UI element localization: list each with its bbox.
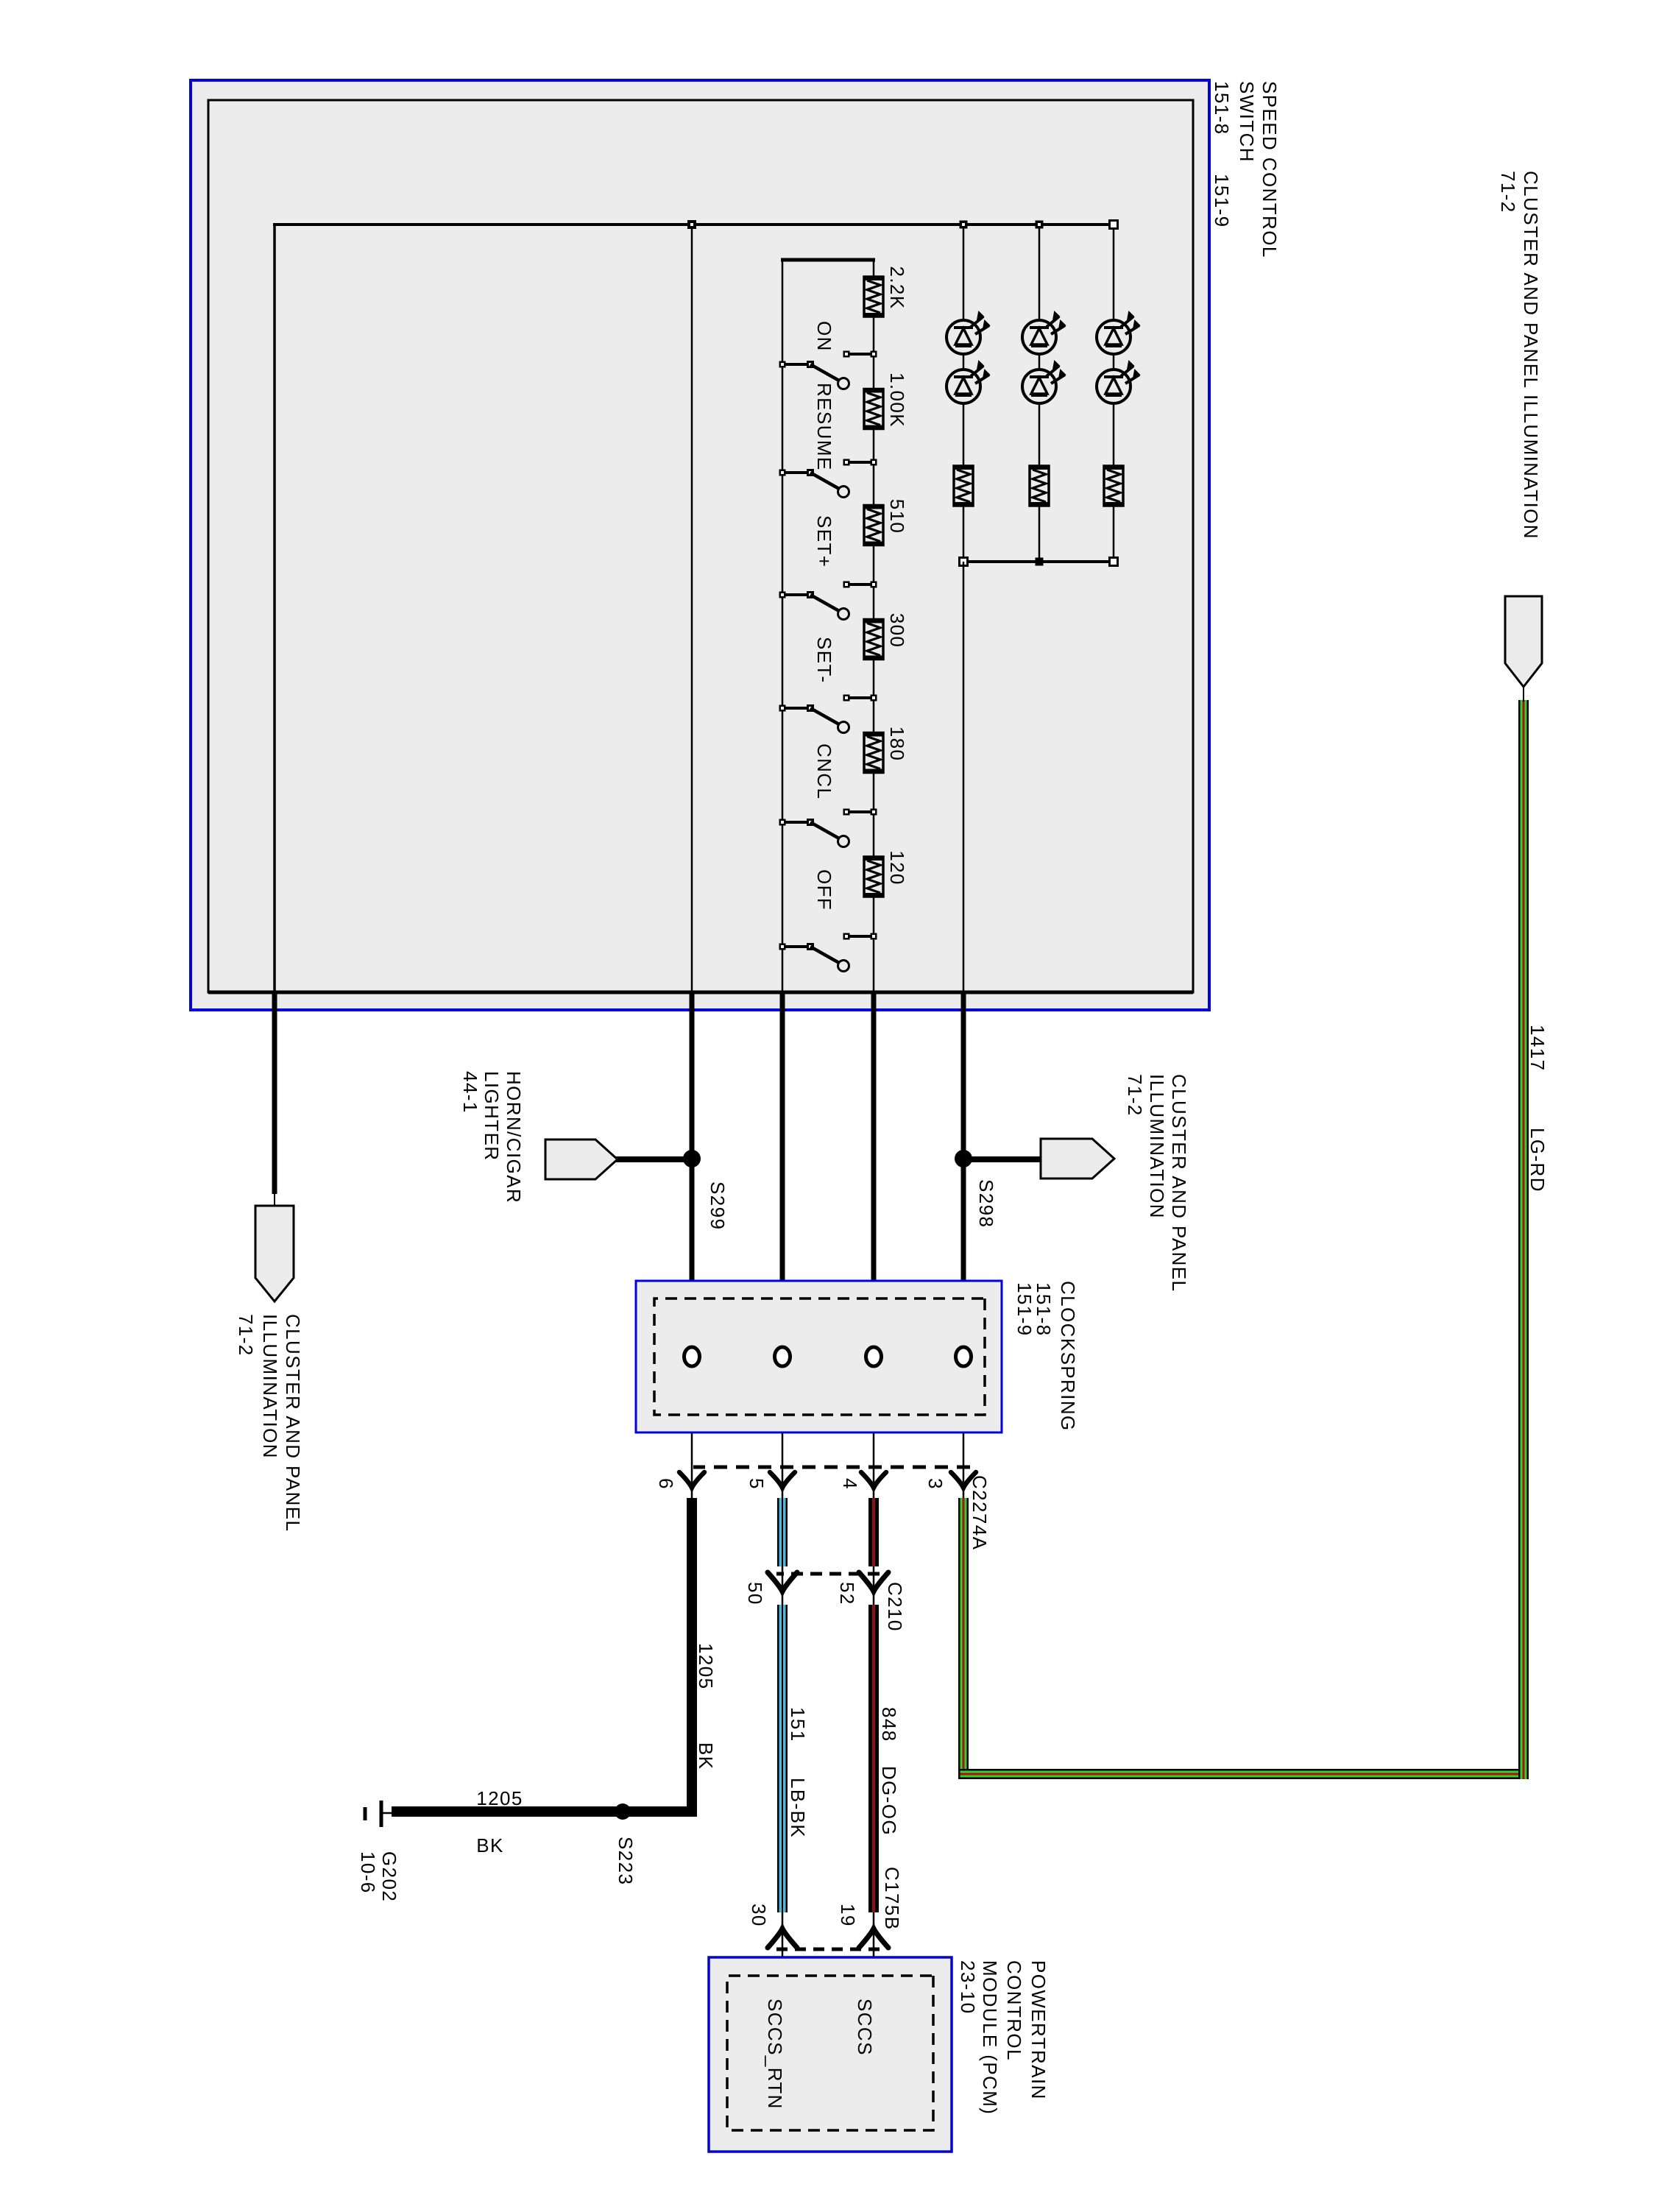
svg-text:151-9: 151-9	[1013, 1282, 1036, 1337]
svg-text:2.2K: 2.2K	[886, 266, 908, 309]
wire lamp branch 2	[1038, 225, 1041, 320]
label 1205 (ground run)	[476, 1787, 523, 1809]
svg-text:S298: S298	[975, 1179, 997, 1228]
svg-text:S223: S223	[615, 1837, 637, 1885]
svg-text:151-9: 151-9	[1211, 174, 1233, 228]
wire 1417 LG-RD top run	[1518, 700, 1529, 1779]
svg-text:10-6: 10-6	[357, 1851, 379, 1894]
svg-text:SCCS_RTN: SCCS_RTN	[764, 1999, 786, 2110]
svg-text:SET-: SET-	[813, 637, 835, 683]
svg-text:ILLUMINATION: ILLUMINATION	[1146, 1074, 1168, 1219]
powertrain control module box	[709, 1957, 952, 2152]
wire 1417 LG-RD vertical run	[958, 1769, 1529, 1779]
resistor 2.2K	[864, 277, 883, 317]
svg-text:30: 30	[748, 1904, 770, 1927]
splice S298	[955, 1150, 972, 1167]
svg-text:CLOCKSPRING: CLOCKSPRING	[1057, 1281, 1079, 1432]
svg-text:120: 120	[886, 850, 908, 886]
wire pin6 black	[691, 225, 693, 992]
svg-text:CLUSTER AND PANEL ILLUMINATION: CLUSTER AND PANEL ILLUMINATION	[1520, 171, 1542, 540]
wire lamp bottom bus	[962, 560, 1115, 563]
svg-text:G202: G202	[378, 1851, 400, 1902]
wire stub to horn/cigar connector	[616, 1156, 692, 1162]
svg-text:SCCS: SCCS	[854, 1999, 876, 2056]
ground G202	[381, 1812, 394, 1815]
resistor lamp 3	[954, 466, 973, 506]
svg-text:1.00K: 1.00K	[886, 372, 908, 428]
svg-text:POWERTRAIN: POWERTRAIN	[1027, 1960, 1050, 2100]
svg-text:1205: 1205	[476, 1787, 523, 1809]
svg-text:C2274A: C2274A	[969, 1475, 991, 1550]
svg-text:CLUSTER AND PANEL: CLUSTER AND PANEL	[282, 1314, 304, 1532]
lamp L6	[946, 361, 989, 403]
switch SET+	[779, 582, 877, 620]
svg-text:300: 300	[886, 613, 908, 649]
svg-text:52: 52	[836, 1582, 858, 1605]
wire pin4 chain out	[871, 992, 877, 1281]
svg-text:SWITCH: SWITCH	[1236, 81, 1258, 163]
wire 151 LB-BK bar segment 2	[777, 1605, 788, 1912]
svg-text:50: 50	[744, 1582, 766, 1605]
svg-text:LB-BK: LB-BK	[787, 1778, 809, 1838]
resistor lamp 1	[1104, 466, 1123, 506]
wire stub to cluster illumination connector (S298)	[963, 1156, 1041, 1162]
wire bridge bus-to-chain	[781, 258, 875, 262]
lamp L5	[946, 312, 989, 354]
svg-text:MODULE (PCM): MODULE (PCM)	[979, 1960, 1001, 2115]
wire pin3 lamp out	[963, 562, 965, 992]
speed control switch box	[191, 80, 1209, 1010]
wire 151 LB-BK bar segment 1	[777, 1498, 788, 1566]
svg-text:RESUME: RESUME	[813, 383, 835, 471]
resistor 180	[864, 733, 883, 773]
wire resistor chain	[873, 260, 875, 277]
switch RESUME	[779, 459, 877, 498]
resistor lamp 2	[1030, 466, 1049, 506]
svg-text:C210: C210	[884, 1582, 906, 1632]
connector pin arrow C210 pin 52	[859, 1572, 888, 1591]
svg-text:S299: S299	[707, 1181, 729, 1230]
connector pin arrow C2274A	[861, 1472, 886, 1488]
wire lamp branch 3	[963, 225, 965, 320]
lamp L2	[1097, 361, 1139, 403]
wire top bus	[273, 223, 1114, 226]
clockspring box	[636, 1281, 1002, 1432]
switch OFF	[779, 933, 877, 972]
svg-text:71-2: 71-2	[1124, 1074, 1146, 1117]
svg-text:CNCL: CNCL	[813, 743, 835, 799]
connector pin arrow C175B pin 30	[768, 1929, 797, 1948]
connector pin arrow C2274A	[951, 1472, 976, 1488]
svg-text:BK: BK	[695, 1742, 717, 1770]
resistor 1.00K	[864, 389, 883, 429]
wire 848 DG-OG thin joins	[873, 1566, 875, 1605]
svg-text:ON: ON	[813, 321, 835, 352]
resistor 120	[864, 857, 883, 897]
wire switch bus	[782, 260, 784, 992]
splice S299	[683, 1150, 701, 1167]
connector C2274A dashed line	[693, 1466, 970, 1469]
clockspring terminal	[956, 1347, 972, 1366]
svg-text:5: 5	[746, 1478, 768, 1490]
svg-text:4: 4	[839, 1478, 861, 1490]
svg-text:SET+: SET+	[813, 515, 835, 568]
connector pin arrow C2274A	[770, 1472, 795, 1488]
svg-text:C175B: C175B	[881, 1867, 903, 1931]
svg-text:DG-OG: DG-OG	[878, 1766, 900, 1836]
svg-text:LIGHTER: LIGHTER	[481, 1071, 503, 1161]
wire pin5 switch-bus out	[780, 992, 785, 1281]
svg-text:44-1: 44-1	[459, 1071, 481, 1114]
junction top bus lamp branches	[960, 221, 968, 229]
connector pin arrow C2274A	[679, 1472, 704, 1488]
connector C175B dashed line	[776, 1948, 880, 1951]
svg-text:3: 3	[924, 1478, 946, 1490]
svg-text:848: 848	[878, 1707, 900, 1742]
clockspring inner dashed border	[654, 1298, 985, 1415]
wire 1417 LG-RD from pin3	[958, 1498, 969, 1779]
svg-text:HORN/CIGAR: HORN/CIGAR	[503, 1071, 525, 1204]
wire to cluster illumination connector	[273, 223, 276, 992]
connector pin arrow C210 pin 50	[768, 1572, 797, 1591]
switch CNCL	[779, 809, 877, 847]
svg-text:OFF: OFF	[813, 869, 835, 911]
svg-text:LG-RD: LG-RD	[1526, 1128, 1549, 1192]
connector pin arrow C175B pin 19	[859, 1929, 888, 1948]
svg-text:71-2: 71-2	[1497, 171, 1519, 213]
lamp L1	[1097, 312, 1139, 354]
svg-text:CLUSTER AND PANEL: CLUSTER AND PANEL	[1168, 1074, 1190, 1292]
svg-text:151: 151	[787, 1707, 809, 1742]
svg-text:6: 6	[655, 1478, 677, 1490]
clockspring terminal	[866, 1347, 882, 1366]
wire 1205 BK bar	[687, 1498, 697, 1817]
wire 848 DG-OG bar segment 2	[868, 1605, 879, 1912]
svg-text:180: 180	[886, 727, 908, 762]
speed control switch inner border	[208, 100, 1193, 992]
switch SET-	[779, 695, 877, 733]
PCM inner dashed border	[727, 1976, 933, 2130]
wire 848 DG-OG bar segment 1	[868, 1498, 879, 1566]
lamp L3	[1022, 312, 1065, 354]
resistor 510	[864, 506, 883, 545]
clockspring terminal	[684, 1347, 700, 1366]
wire 1205 BK vertical run	[392, 1806, 697, 1817]
svg-text:19: 19	[837, 1904, 859, 1927]
wire lamp branch 1	[1113, 225, 1115, 320]
connector to HORN/CIGAR LIGHTER 44-1	[545, 1139, 618, 1179]
connector to CLUSTER AND PANEL ILLUMINATION 71-2 (bottom)	[255, 1206, 294, 1301]
svg-text:510: 510	[886, 499, 908, 534]
svg-text:ILLUMINATION: ILLUMINATION	[259, 1314, 281, 1459]
wire 151 LB-BK thin joins	[782, 1566, 784, 1605]
svg-text:151-8: 151-8	[1211, 81, 1233, 135]
connector to CLUSTER AND PANEL ILLUMINATION 71-2 (top)	[1505, 596, 1542, 687]
clockspring terminal	[775, 1347, 790, 1366]
junction bottom bus lamp branches	[1110, 558, 1118, 566]
svg-text:1205: 1205	[695, 1643, 717, 1689]
connector C210 dashed line	[776, 1572, 880, 1576]
resistor 300	[864, 620, 883, 660]
svg-text:71-2: 71-2	[235, 1314, 257, 1357]
label BK (ground run)	[476, 1834, 503, 1856]
svg-text:1417: 1417	[1526, 1025, 1549, 1071]
lamp L4	[1022, 361, 1065, 403]
svg-text:CONTROL: CONTROL	[1003, 1960, 1025, 2061]
svg-text:23-10: 23-10	[957, 1960, 979, 2015]
splice S223	[615, 1803, 631, 1820]
connector to CLUSTER AND PANEL ILLUMINATION 71-2 (S298)	[1041, 1139, 1114, 1179]
svg-text:SPEED CONTROL: SPEED CONTROL	[1259, 81, 1281, 258]
svg-text:BK: BK	[476, 1834, 503, 1856]
switch ON	[779, 351, 877, 389]
